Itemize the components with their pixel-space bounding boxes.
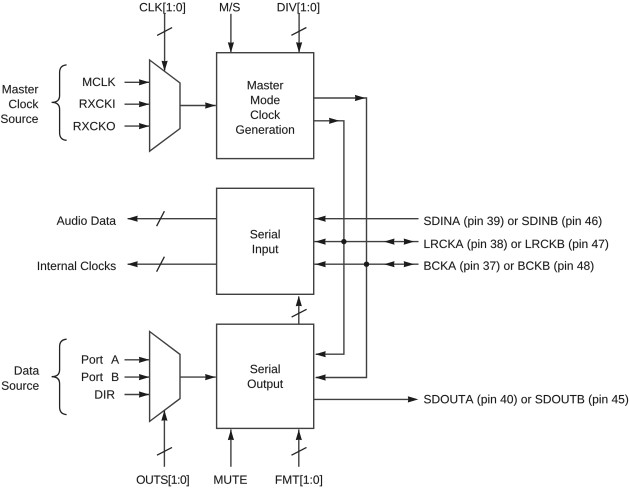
wire M/S down to master box (230, 14, 232, 53)
arrowhead Port B (139, 374, 150, 380)
label MUTE (214, 476, 246, 484)
junction dot LRCKA on left bus (341, 239, 346, 244)
arrowhead DIR (139, 391, 150, 397)
arrowhead DIV into master box (296, 42, 302, 53)
wire CLK down to clock mux (164, 14, 166, 71)
wire Port A to data mux (125, 359, 150, 361)
wire LRCKA row (314, 241, 419, 243)
wire DIR to data mux (125, 394, 150, 396)
wire SDOUTA output (314, 398, 414, 400)
box U3 Serial Output (217, 324, 314, 428)
label RXCKI (80, 99, 115, 107)
clock source mux (150, 60, 180, 151)
wire BCKA row (314, 263, 419, 265)
label Master Clock Source (3, 85, 38, 93)
junction dot BCKA on right bus (364, 262, 369, 267)
bidirectional arrowheads on LRCKA (384, 239, 395, 245)
slash on internal clocks wire (157, 257, 165, 272)
label FMT[1:0] (276, 475, 322, 486)
wire RXCKO to mux (125, 125, 150, 127)
arrowhead MUTE into serial output bottom (228, 430, 234, 441)
label OUTS[1:0] (137, 475, 189, 486)
wire master upper output to right vertical bus (314, 98, 367, 378)
arrowhead audio data (127, 216, 138, 222)
label LRCKA (424, 239, 608, 250)
label Audio Data (57, 216, 116, 225)
arrowhead M/S into master box (228, 42, 234, 53)
wire clock mux output to master box (180, 105, 216, 107)
arrowhead RXCKO (139, 123, 150, 129)
wire internal clocks from serial input (128, 263, 217, 265)
slash on OUTS wire (157, 447, 172, 455)
label BCKA (424, 261, 593, 272)
label CLK[1:0] (140, 3, 185, 14)
wire master lower output to left vertical bus (314, 121, 344, 354)
label SDOUTA (424, 395, 628, 406)
arrowhead FMT into serial output bottom (296, 430, 302, 441)
arrowhead data mux output into serial output (205, 374, 216, 380)
brace master clock source (52, 65, 67, 140)
wire MUTE up into serial output (230, 429, 232, 466)
label Port B (82, 373, 103, 381)
box U2 Serial Input (217, 188, 314, 294)
wire Port B to data mux (125, 376, 150, 378)
box U1 Master Mode Clock Generation (217, 53, 314, 159)
slash on CLK wire (157, 28, 172, 36)
label MCLK (83, 78, 115, 86)
label Port A (82, 355, 103, 363)
data source mux (150, 332, 180, 422)
arrowhead CLK into mux slant (162, 61, 168, 71)
arrowhead MCLK (139, 79, 150, 85)
slash on FMT wire (292, 447, 307, 455)
wire SDINA row (314, 218, 419, 220)
label RXCKO (74, 122, 115, 130)
wire FMT up into serial output (298, 429, 300, 466)
brace data source (52, 339, 67, 414)
arrowhead BCKA into serial input (315, 261, 326, 267)
arrowhead internal clocks (127, 261, 138, 267)
bidirectional arrowheads on BCKA (384, 261, 395, 267)
arrowhead SDINA into serial input (315, 216, 326, 222)
arrowhead left bus into serial output (315, 351, 326, 357)
label DIR (95, 390, 114, 398)
arrowhead on upper output before corner (355, 95, 366, 101)
wire OUTS up into data mux (163, 410, 165, 466)
arrowhead on lower output before corner (329, 118, 340, 124)
wire DIV down to master box (298, 14, 300, 53)
wire data mux output to serial output box (180, 376, 216, 378)
arrowhead OUTS into mux bottom slant (161, 410, 167, 421)
wire RXCKI to mux (125, 103, 150, 105)
arrowhead clock mux output into master box (205, 102, 216, 108)
wire MCLK to mux (125, 81, 150, 83)
slash on link wire (292, 309, 307, 317)
wire serial output to serial input link (298, 297, 300, 325)
label DIV[1:0] (278, 3, 320, 14)
arrowhead SDOUTA (408, 396, 419, 402)
label Data Source (15, 366, 39, 374)
label M/S (220, 3, 240, 12)
arrowhead link into serial input bottom (296, 296, 302, 307)
arrowhead Port A (139, 357, 150, 363)
arrowhead RXCKI (139, 101, 150, 107)
label Internal Clocks (38, 261, 116, 270)
slash on DIV wire (291, 28, 306, 36)
label SDINA (424, 216, 601, 227)
slash on audio data wire (157, 211, 165, 226)
arrowhead LRCKA into serial input (315, 239, 326, 245)
arrowhead right bus into serial output (315, 374, 326, 380)
wire audio data from serial input (128, 218, 217, 220)
